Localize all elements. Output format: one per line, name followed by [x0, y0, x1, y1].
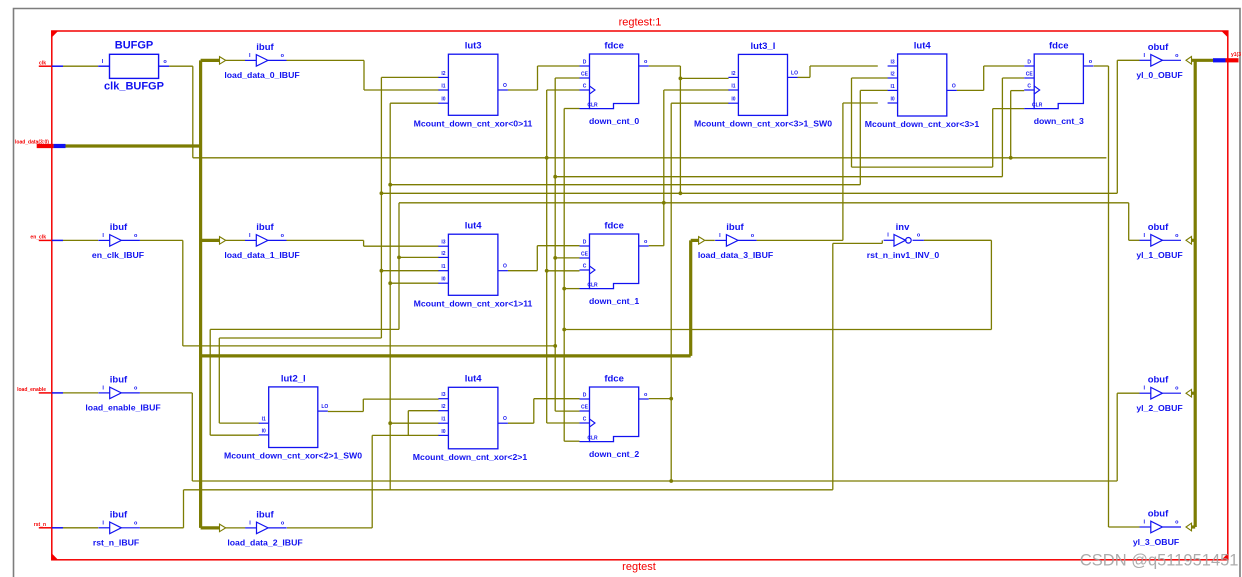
wire clock to down_cnt_3 C — [1010, 91, 1012, 158]
wire lut4 I2 drop (row1) — [851, 78, 853, 167]
wire load_enable_IBUF output — [140, 392, 192, 394]
svg-text:yl_1_OBUF: yl_1_OBUF — [1136, 250, 1182, 260]
obuf yl_0_OBUF — [1140, 59, 1151, 61]
svg-text:C: C — [583, 264, 587, 270]
corner marker bottom-right — [1221, 553, 1228, 560]
obuf yl_2_OBUF — [1140, 392, 1151, 394]
wire q1 channel to obuf yl_1 — [399, 202, 1129, 204]
svg-text:D: D — [583, 60, 587, 66]
svg-text:I1: I1 — [441, 417, 445, 423]
wire lut4 row2 O to fdce1 D — [508, 270, 537, 272]
svg-text:I0: I0 — [441, 97, 445, 103]
svg-text:ibuf: ibuf — [256, 222, 274, 233]
wire rst_n to inv input — [833, 242, 883, 244]
wire load_data_0_IBUF input — [225, 59, 245, 61]
port y1(3:0) output — [1213, 58, 1226, 62]
wire CE channel to down_cnt_3 — [555, 176, 1002, 178]
svg-text:down_cnt_1: down_cnt_1 — [589, 296, 639, 306]
wire BUFGP output / clock net — [169, 65, 193, 67]
wire lut4 row3 O to fdce2 D — [508, 422, 534, 424]
svg-text:load_enable_IBUF: load_enable_IBUF — [85, 403, 160, 413]
svg-text:ibuf: ibuf — [110, 374, 128, 385]
svg-text:load_data_3_IBUF: load_data_3_IBUF — [698, 250, 773, 260]
svg-text:lut3_l: lut3_l — [751, 41, 776, 52]
svg-text:O: O — [503, 264, 507, 270]
lut4 Mcount_down_cnt_xor<2>1 — [448, 387, 498, 449]
svg-text:yl_3_OBUF: yl_3_OBUF — [1133, 537, 1179, 547]
wire q2 riser to obuf yl_2 — [1116, 393, 1118, 481]
lut3_l Mcount_down_cnt_xor<3>1_SW0 — [738, 54, 787, 115]
bus branch to load_data_3 tap — [201, 354, 691, 357]
bus load_data(3:0) trunk — [66, 144, 201, 147]
wire lut3 O to fdce D — [508, 89, 538, 91]
svg-text:lut4: lut4 — [914, 40, 932, 51]
wire clk input to BUFGP — [63, 65, 98, 67]
svg-text:rst_n_IBUF: rst_n_IBUF — [93, 538, 139, 548]
wire q0 riser to obuf yl_0 — [1116, 60, 1118, 193]
svg-text:yl_0_OBUF: yl_0_OBUF — [1136, 70, 1182, 80]
bus rip from yl_1_OBUF — [1191, 239, 1195, 242]
svg-text:down_cnt_3: down_cnt_3 — [1034, 116, 1084, 126]
corner marker top-left — [51, 31, 58, 38]
wire load_data_3_IBUF output to lut4 I0 (row1) — [757, 239, 843, 241]
lut3 Mcount_down_cnt_xor<0>11 — [448, 54, 498, 115]
svg-text:O: O — [503, 83, 507, 89]
wire q1 taps to lut4 row2 — [397, 256, 401, 260]
wire q0 feedback to lut3 I2 — [380, 77, 382, 338]
svg-text:I1: I1 — [262, 417, 266, 423]
svg-text:load_data_1_IBUF: load_data_1_IBUF — [224, 250, 299, 260]
svg-text:down_cnt_0: down_cnt_0 — [589, 116, 639, 126]
wire down_cnt_3 Q net — [1094, 65, 1109, 67]
wire down_cnt_0 Q net — [649, 65, 681, 67]
svg-text:clk: clk — [39, 60, 46, 66]
svg-text:I3: I3 — [441, 240, 445, 246]
svg-text:fdce: fdce — [604, 373, 624, 384]
svg-text:down_cnt_2: down_cnt_2 — [589, 449, 639, 459]
svg-text:ibuf: ibuf — [726, 222, 744, 233]
wire rst_n channel — [184, 489, 833, 491]
svg-text:I2: I2 — [441, 71, 445, 77]
svg-text:load_data_2_IBUF: load_data_2_IBUF — [227, 538, 302, 548]
svg-text:I2: I2 — [441, 404, 445, 410]
svg-text:CE: CE — [581, 252, 589, 258]
wire down_cnt_2 Q net — [649, 398, 672, 400]
ibuf load_data_1_IBUF — [245, 239, 256, 241]
svg-text:Mcount_down_cnt_xor<2>1: Mcount_down_cnt_xor<2>1 — [413, 452, 528, 462]
svg-text:I0: I0 — [731, 97, 735, 103]
inverter inv rst_n_inv1_INV_0 — [884, 239, 894, 241]
obuf yl_1_OBUF — [1140, 239, 1151, 241]
svg-text:Mcount_down_cnt_xor<2>1_SW0: Mcount_down_cnt_xor<2>1_SW0 — [224, 451, 362, 461]
svg-text:fdce: fdce — [1049, 40, 1069, 51]
svg-text:Mcount_down_cnt_xor<1>11: Mcount_down_cnt_xor<1>11 — [414, 298, 533, 308]
ibuf load_data_0_IBUF — [245, 59, 256, 61]
svg-text:I1: I1 — [441, 84, 445, 90]
corner marker bottom-left — [51, 553, 58, 560]
svg-text:CLR: CLR — [587, 283, 598, 289]
wire lut4 row3 I2 drop — [408, 410, 438, 412]
svg-text:CLR: CLR — [1032, 103, 1043, 109]
flip-flop fdce down_cnt_1 — [590, 234, 639, 289]
svg-text:inv: inv — [896, 222, 910, 233]
wire load_data_1_IBUF output to lut4 I3 — [287, 239, 364, 241]
wire load_data_2_IBUF input — [225, 527, 245, 529]
svg-text:en_clk_IBUF: en_clk_IBUF — [92, 250, 144, 260]
svg-text:C: C — [583, 417, 587, 423]
svg-text:regtest:1: regtest:1 — [619, 17, 662, 29]
svg-text:D: D — [1027, 60, 1031, 66]
wire lut2_l LO to lut4 row3 I3 — [328, 411, 364, 413]
wire rst_n_IBUF output — [140, 527, 184, 529]
wire load_data_3_IBUF input — [705, 239, 715, 241]
svg-text:regtest: regtest — [622, 561, 656, 573]
svg-text:CSDN @q511951451: CSDN @q511951451 — [1080, 552, 1239, 570]
svg-text:BUFGP: BUFGP — [115, 40, 154, 52]
bus rip to load_data_2_IBUF — [220, 524, 226, 532]
svg-text:fdce: fdce — [604, 40, 624, 51]
svg-text:I2: I2 — [441, 251, 445, 257]
svg-text:obuf: obuf — [1148, 42, 1169, 53]
bus rip to load_data_1_IBUF — [220, 237, 226, 245]
svg-text:I0: I0 — [891, 97, 895, 103]
svg-text:clk_BUFGP: clk_BUFGP — [104, 81, 164, 93]
wire clock trunk to fdce C pins — [546, 90, 548, 423]
svg-text:LO: LO — [321, 404, 328, 410]
bus rip to load_data_3_IBUF — [699, 237, 705, 245]
svg-text:O: O — [503, 416, 507, 422]
lut4 Mcount_down_cnt_xor<3>1 — [898, 54, 947, 116]
svg-text:C: C — [1027, 84, 1031, 90]
svg-text:y1(3: y1(3 — [1231, 52, 1241, 58]
svg-text:ibuf: ibuf — [110, 509, 128, 520]
wire CE trunk vertical — [554, 78, 556, 411]
wire q1 trunk x390 — [389, 103, 391, 490]
wire inv output / reset net — [924, 239, 992, 241]
svg-text:Mcount_down_cnt_xor<3>1: Mcount_down_cnt_xor<3>1 — [865, 119, 980, 129]
svg-text:load_data_0_IBUF: load_data_0_IBUF — [224, 70, 299, 80]
wire rst_n input — [63, 527, 98, 529]
svg-text:lut2_l: lut2_l — [281, 373, 306, 384]
wire load_data_1_IBUF input — [225, 239, 245, 241]
svg-text:D: D — [583, 240, 587, 246]
ibuf rst_n_IBUF — [98, 527, 109, 529]
bus y1(3:0) trunk (right) — [1194, 60, 1197, 527]
ibuf load_enable_IBUF — [98, 392, 109, 394]
svg-text:I1: I1 — [731, 84, 735, 90]
bus rip to load_data_0_IBUF — [220, 57, 226, 65]
svg-text:lut4: lut4 — [465, 374, 483, 385]
svg-text:obuf: obuf — [1148, 222, 1169, 233]
flip-flop fdce down_cnt_0 — [590, 54, 639, 109]
svg-text:obuf: obuf — [1148, 509, 1169, 520]
bus rip from yl_3_OBUF — [1191, 525, 1195, 528]
svg-text:load_enable: load_enable — [17, 387, 46, 393]
flip-flop fdce down_cnt_2 — [590, 387, 639, 442]
ibuf load_data_3_IBUF — [715, 239, 726, 241]
svg-text:O: O — [952, 83, 956, 89]
corner marker top-right — [1221, 31, 1228, 38]
svg-text:I0: I0 — [441, 429, 445, 435]
svg-text:Mcount_down_cnt_xor<3>1_SW0: Mcount_down_cnt_xor<3>1_SW0 — [694, 118, 832, 128]
wire load_data_0_IBUF output to lut3 I1 — [287, 59, 365, 61]
bus rip from yl_0_OBUF — [1186, 57, 1192, 65]
svg-text:D: D — [583, 393, 587, 399]
wire load_enable input — [63, 392, 98, 394]
obuf yl_3_OBUF — [1140, 526, 1151, 528]
ibuf load_data_2_IBUF — [245, 527, 256, 529]
svg-text:CLR: CLR — [587, 103, 598, 109]
svg-text:C: C — [583, 84, 587, 90]
ibuf en_clk_IBUF — [98, 239, 109, 241]
lut4 Mcount_down_cnt_xor<1>11 — [448, 234, 498, 295]
wire lut3_l LO to lut4 I3 — [798, 76, 811, 78]
svg-text:CE: CE — [581, 72, 589, 78]
svg-text:Mcount_down_cnt_xor<0>11: Mcount_down_cnt_xor<0>11 — [414, 118, 533, 128]
svg-text:en_clk: en_clk — [30, 235, 46, 241]
wire CLR trunk vertical — [563, 109, 565, 442]
svg-text:I0: I0 — [441, 277, 445, 283]
svg-text:CE: CE — [1026, 72, 1034, 78]
wire q1 jog via 399/329 — [398, 203, 400, 330]
lut2_l Mcount_down_cnt_xor<2>1_SW0 — [269, 387, 318, 448]
svg-text:obuf: obuf — [1148, 375, 1169, 386]
wire load_enable / q2 channel — [192, 480, 1117, 482]
wire load_data_2_IBUF output to lut4 I0 — [287, 527, 372, 529]
wire lut4 row1 O to fdce3 D — [957, 89, 984, 91]
wire en_clk_IBUF output / CE net — [140, 239, 183, 241]
svg-text:ibuf: ibuf — [256, 509, 274, 520]
flip-flop fdce down_cnt_3 — [1034, 54, 1083, 109]
svg-text:I1: I1 — [891, 84, 895, 90]
svg-text:fdce: fdce — [604, 220, 624, 231]
svg-text:yl_2_OBUF: yl_2_OBUF — [1136, 403, 1182, 413]
svg-text:LO: LO — [791, 70, 798, 76]
svg-text:I1: I1 — [441, 264, 445, 270]
svg-text:CE: CE — [581, 405, 589, 411]
wire q0 to lut2_l I1 — [219, 337, 381, 339]
wire en_clk input — [63, 239, 98, 241]
svg-text:I0: I0 — [262, 428, 266, 434]
svg-text:I2: I2 — [731, 71, 735, 77]
svg-text:ibuf: ibuf — [110, 222, 128, 233]
svg-text:ibuf: ibuf — [256, 42, 274, 53]
buffer BUFGP clk_BUFGP — [110, 54, 159, 78]
svg-text:I3: I3 — [441, 392, 445, 398]
svg-text:rst_n_inv1_INV_0: rst_n_inv1_INV_0 — [867, 250, 940, 260]
svg-text:CLR: CLR — [587, 436, 598, 442]
svg-text:lut3: lut3 — [465, 41, 482, 52]
svg-text:lut4: lut4 — [465, 221, 483, 232]
wire down_cnt_1 Q net — [649, 245, 664, 247]
svg-text:I2: I2 — [891, 72, 895, 78]
wire q1 channel to lut4 row1 I1 — [390, 184, 860, 186]
bus rip from yl_2_OBUF — [1191, 392, 1195, 395]
svg-text:I3: I3 — [891, 60, 895, 66]
wire CLR channel to down_cnt_3 — [852, 166, 993, 168]
